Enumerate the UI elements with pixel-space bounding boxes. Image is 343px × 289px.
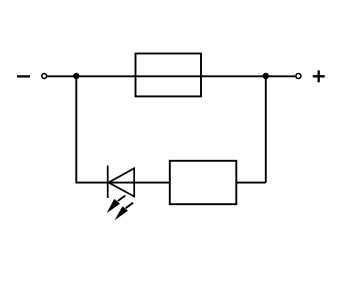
LED D1 light arrow 2: [115, 203, 134, 221]
terminal label minus: [17, 75, 30, 77]
LED D1 light arrow 1: [107, 196, 126, 214]
wire left vertical: [75, 76, 77, 183]
LED D1 triangle: [109, 168, 135, 196]
node left junction: [73, 73, 79, 79]
wire bottom left: [76, 182, 170, 184]
node right junction: [263, 73, 269, 79]
terminal circle left: [42, 74, 47, 79]
LED D1 cathode bar: [107, 166, 109, 199]
wire bottom right: [236, 182, 266, 184]
wire right vertical: [265, 76, 267, 183]
wire top: [47, 75, 295, 77]
resistor R1 box: [170, 161, 237, 204]
terminal label plus: [313, 70, 325, 82]
fuse F1: [136, 54, 202, 97]
terminal circle right: [296, 74, 301, 79]
